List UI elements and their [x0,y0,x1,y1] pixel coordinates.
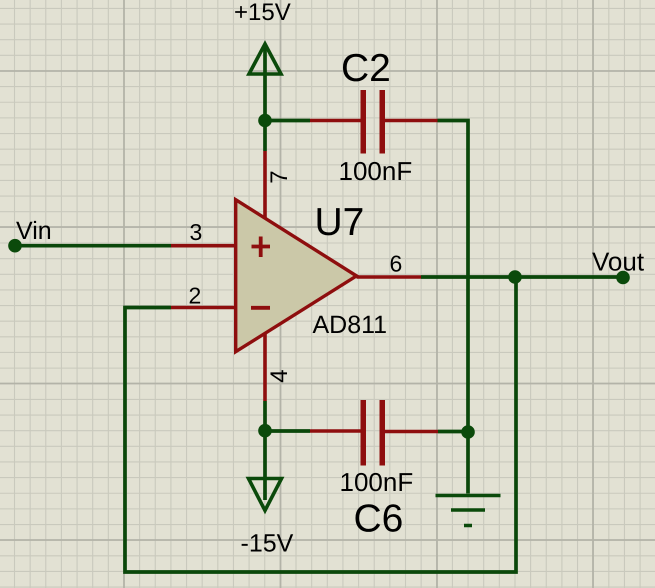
svg-text:Vout: Vout [592,247,645,277]
svg-text:C2: C2 [341,47,391,90]
svg-text:6: 6 [390,251,403,277]
svg-text:100nF: 100nF [339,156,413,186]
svg-text:Vin: Vin [16,217,52,245]
svg-text:AD811: AD811 [313,311,388,339]
svg-text:+15V: +15V [234,0,291,26]
svg-text:U7: U7 [315,201,365,244]
svg-text:3: 3 [190,219,203,245]
svg-text:-15V: -15V [241,530,294,558]
svg-text:2: 2 [189,283,202,309]
svg-text:4: 4 [266,369,293,382]
svg-text:C6: C6 [354,498,404,541]
svg-text:7: 7 [266,170,293,183]
svg-text:100nF: 100nF [340,467,414,497]
